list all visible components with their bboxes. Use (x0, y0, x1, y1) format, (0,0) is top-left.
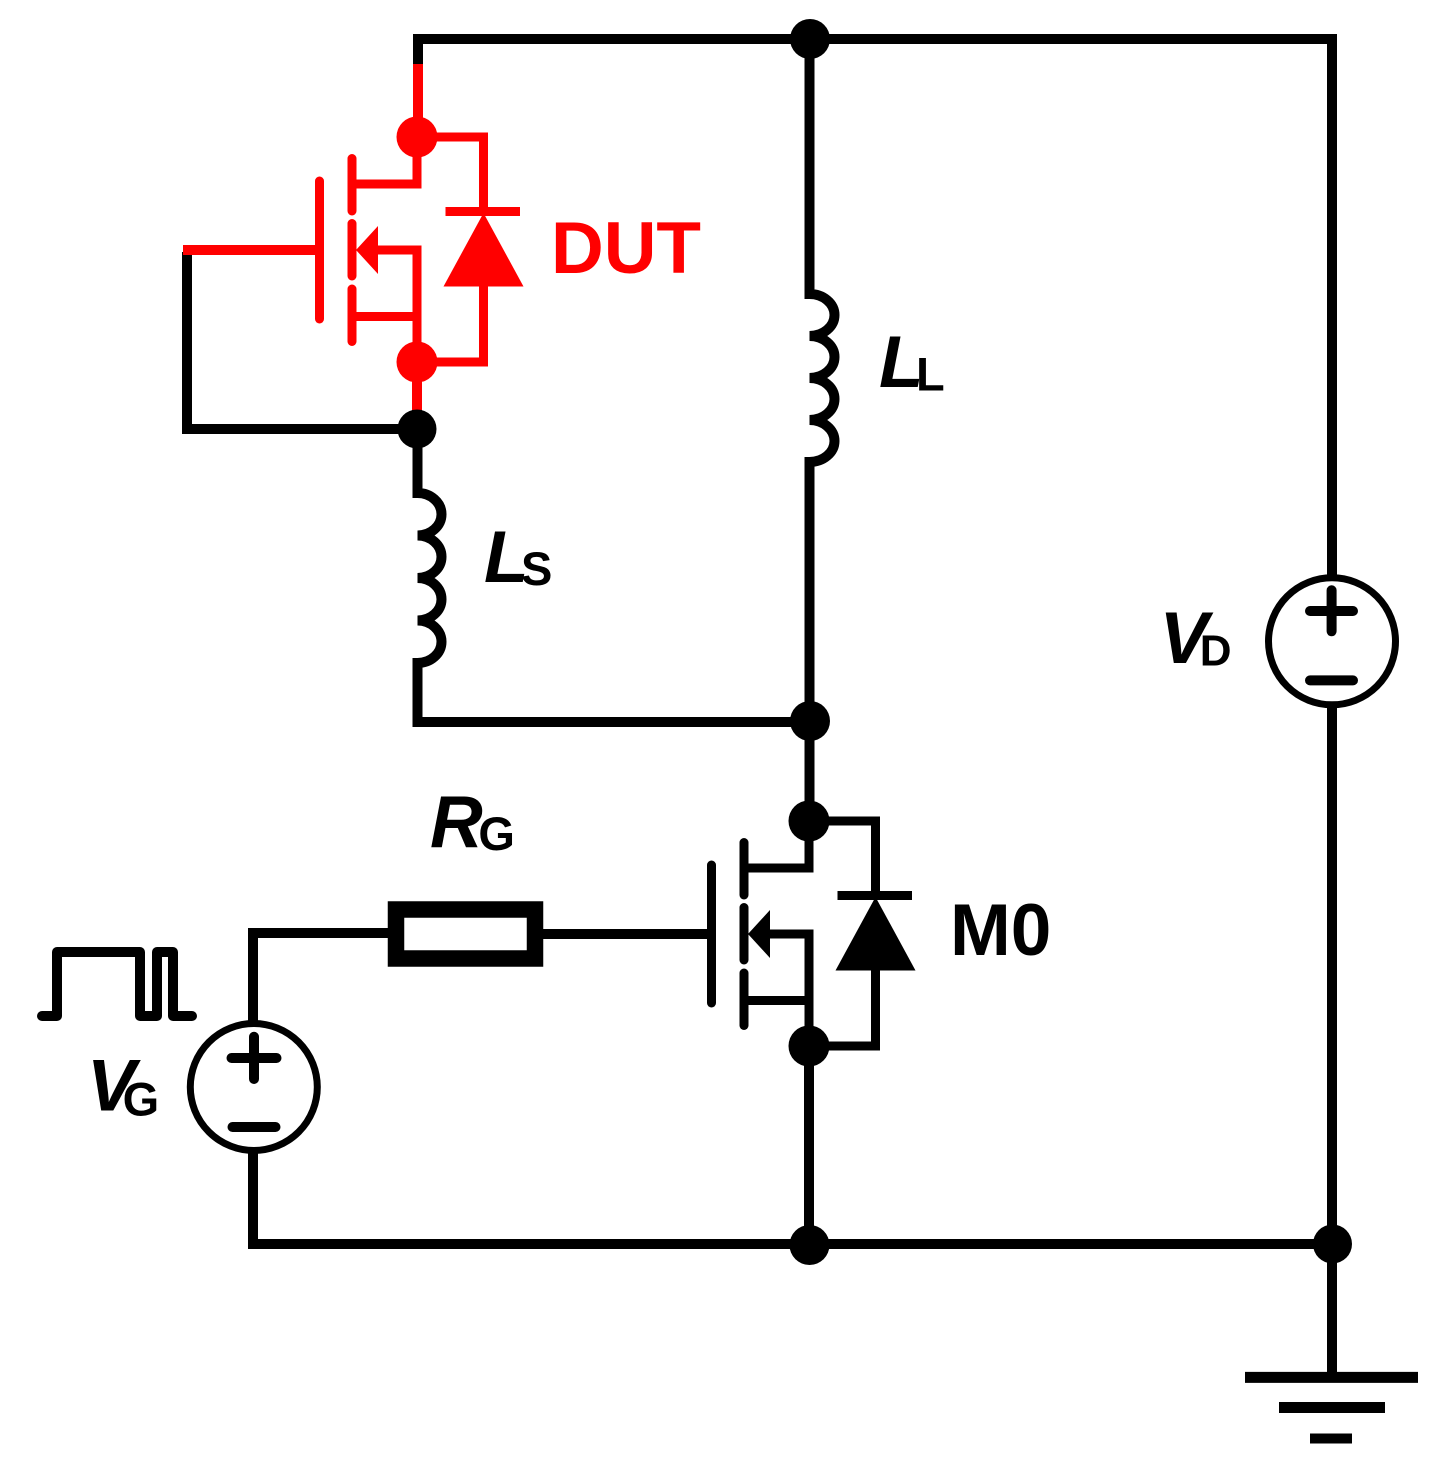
resistor RG (396, 910, 535, 959)
wire: gate-source short loop (black) (187, 252, 417, 429)
svg-text:G: G (123, 1073, 160, 1126)
node: switch-node junction dot (790, 701, 830, 741)
transistor M0 (black MOSFET with body diode) (712, 801, 916, 1067)
wire: VD bottom lead to ground (1327, 705, 1337, 1377)
voltage source VD circle (1269, 578, 1396, 705)
wire: switch node down to M0 drain (805, 721, 815, 821)
node: bottom center junction dot (790, 1225, 830, 1265)
VD minus sign (1310, 675, 1353, 685)
node: top junction dot (790, 19, 830, 59)
wire: DUT source red stub down (412, 362, 422, 412)
svg-text:R: R (430, 782, 483, 863)
node: bottom right junction dot (1313, 1225, 1352, 1264)
svg-text:G: G (478, 807, 515, 860)
inductor LS (418, 429, 811, 722)
wire: top-left corner drop to DUT drain (black part) (413, 34, 423, 70)
transistor DUT (red MOSFET with body diode) (320, 117, 524, 383)
VG minus sign (233, 1122, 276, 1132)
wire: DUT gate lead (red) (183, 245, 322, 255)
wire: VG to RG left lead (388, 928, 396, 938)
VG plus sign (232, 1037, 277, 1079)
pulse waveform symbol (42, 952, 192, 1016)
wire: VG top lead to resistor (253, 933, 396, 1021)
wire: VG bottom lead and bottom rail (253, 1153, 1332, 1244)
wire: red-black stub to source node (412, 410, 422, 429)
svg-text:L: L (916, 348, 945, 401)
svg-text:S: S (521, 542, 552, 595)
inductor LL (810, 34, 835, 721)
wire: top rail (418, 34, 1332, 44)
wire: DUT drain red segment (413, 64, 423, 137)
voltage source VG circle (190, 1024, 317, 1151)
svg-text:M0: M0 (950, 890, 1051, 971)
VD plus sign (1310, 590, 1353, 631)
node: DUT source / LS junction dot (398, 410, 437, 449)
wire: top-right corner down to VD (1327, 34, 1337, 578)
wire: M0 gate lead from RG (541, 929, 713, 939)
svg-text:D: D (1200, 627, 1232, 676)
ground symbol (1245, 1372, 1418, 1383)
svg-text:DUT: DUT (551, 208, 701, 289)
wire: M0 source down to bottom rail (804, 1046, 814, 1244)
